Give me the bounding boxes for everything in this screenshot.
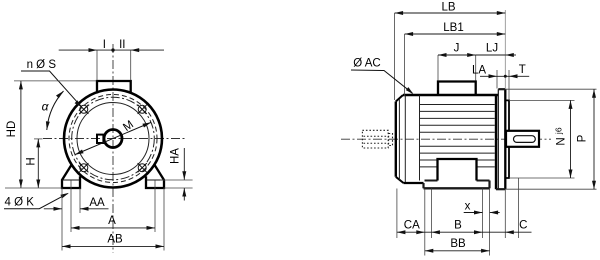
svg-text:C: C — [519, 220, 527, 232]
svg-text:A: A — [108, 215, 116, 227]
svg-text:Ø AC: Ø AC — [353, 57, 380, 69]
svg-text:LA: LA — [472, 64, 486, 76]
svg-text:BB: BB — [450, 238, 466, 250]
svg-text:H: H — [26, 157, 38, 165]
svg-text:B: B — [454, 219, 462, 231]
svg-text:HA: HA — [170, 148, 182, 164]
svg-text:x: x — [465, 200, 471, 212]
svg-text:4 Ø K: 4 Ø K — [4, 196, 34, 208]
svg-text:I: I — [103, 39, 106, 51]
svg-text:AA: AA — [89, 197, 105, 209]
svg-text:II: II — [119, 39, 125, 51]
svg-text:J: J — [454, 43, 460, 55]
svg-text:HD: HD — [6, 121, 18, 138]
svg-text:CA: CA — [404, 219, 420, 231]
svg-text:LB: LB — [441, 1, 455, 13]
svg-text:α: α — [42, 100, 50, 114]
svg-text:LJ: LJ — [486, 43, 498, 55]
svg-text:LB1: LB1 — [443, 22, 463, 34]
svg-text:T: T — [519, 64, 526, 76]
svg-text:n Ø S: n Ø S — [27, 59, 57, 71]
svg-text:AB: AB — [107, 233, 123, 245]
svg-text:P: P — [577, 134, 589, 142]
